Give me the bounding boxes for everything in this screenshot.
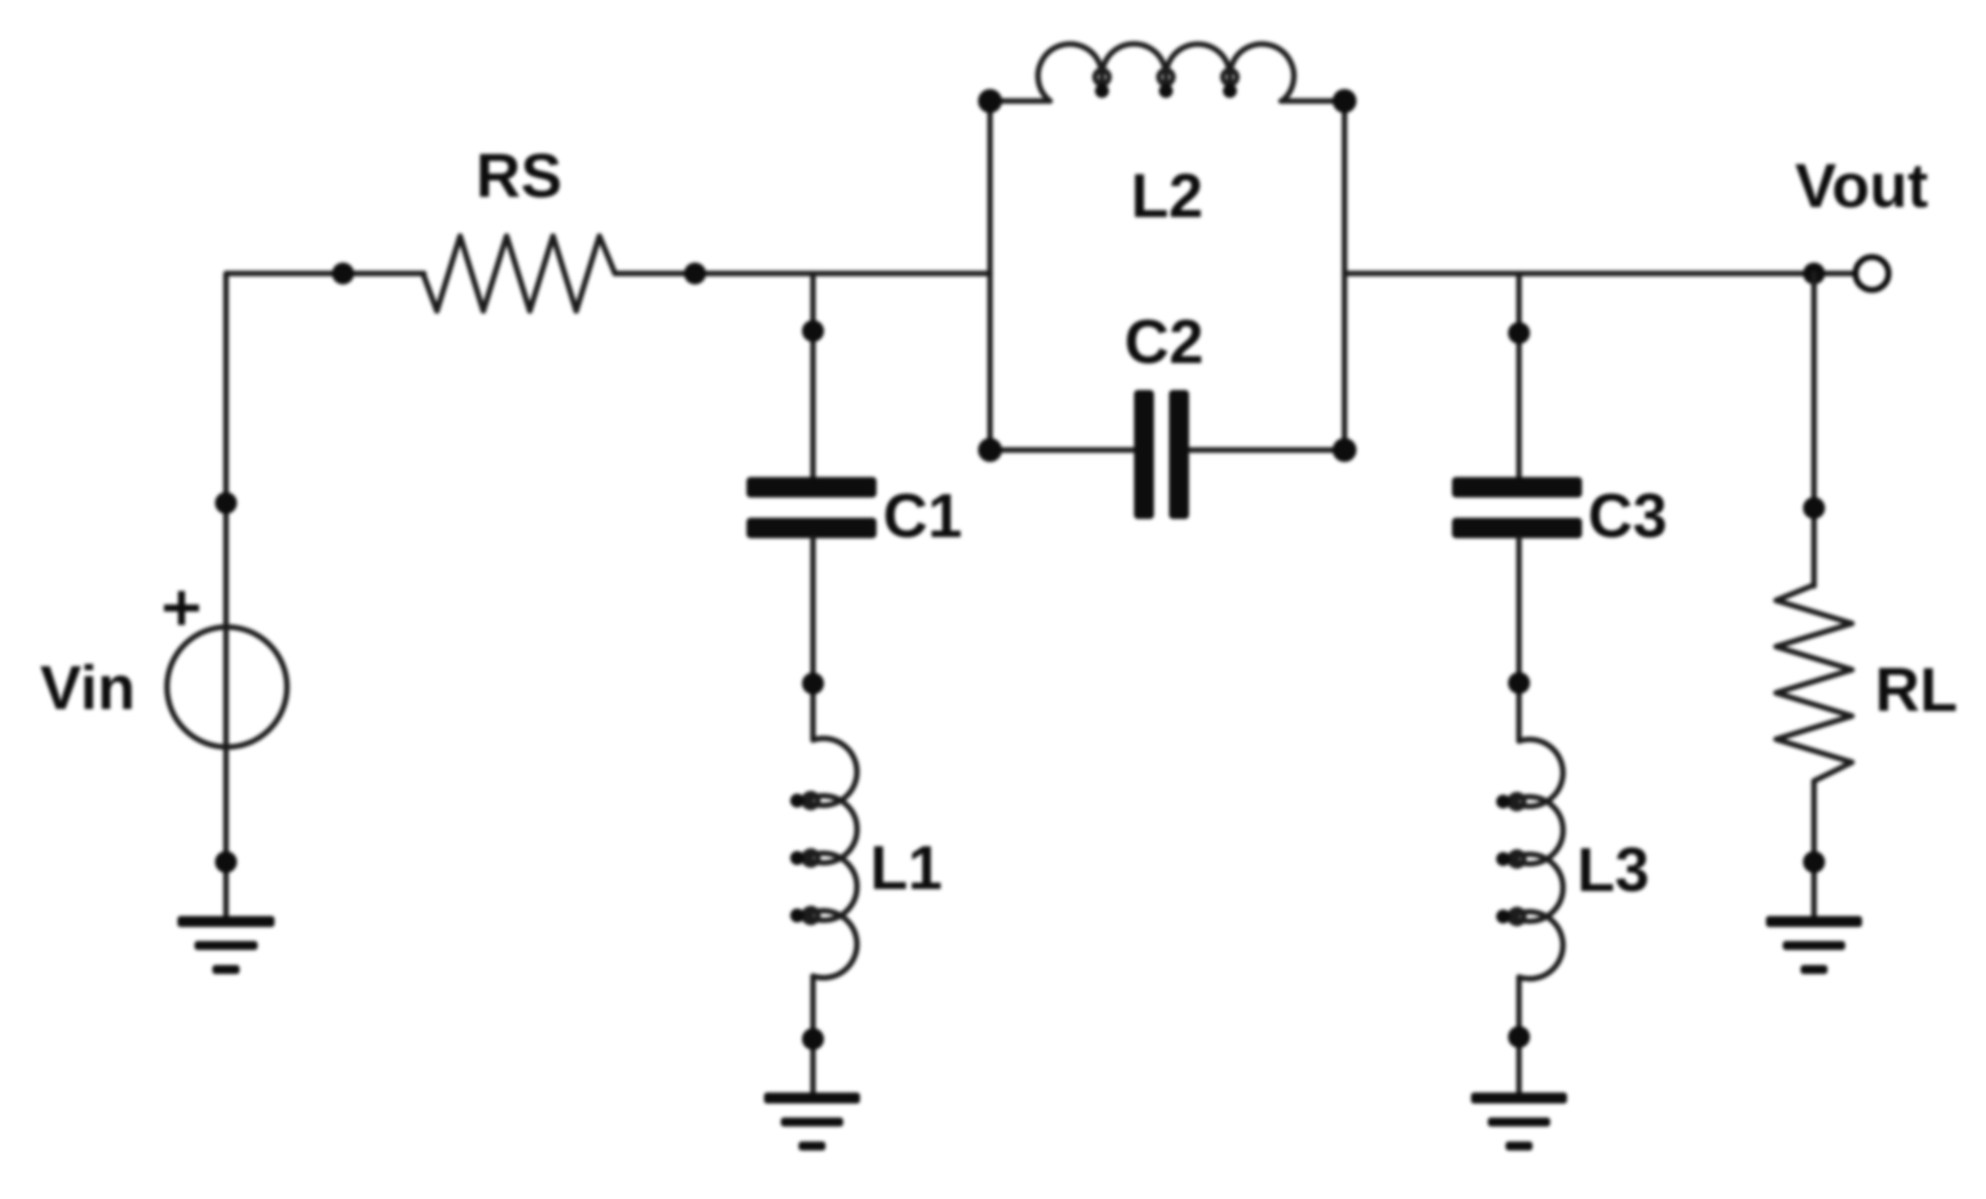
wire: main line down to C3	[1516, 274, 1522, 477]
svg-text:RL: RL	[1875, 656, 1958, 725]
node: dot below RL	[1803, 851, 1825, 873]
wire: box right vertical	[1342, 101, 1348, 450]
wire: box bottom-right segment	[1189, 447, 1345, 453]
node: dot above Vin	[215, 492, 237, 514]
resistor RL	[1776, 585, 1852, 781]
wire: C3 to L3	[1516, 538, 1522, 741]
ground below RL	[1766, 916, 1862, 974]
node: dot below L1	[802, 1028, 824, 1050]
node: box top-left corner	[978, 89, 1002, 113]
node: pin dot right of RS	[684, 263, 706, 285]
wire: box top-left segment	[990, 98, 1050, 104]
node: box top-right corner	[1333, 89, 1357, 113]
svg-text:C3: C3	[1588, 482, 1667, 551]
wire: box bottom-left segment	[990, 447, 1134, 453]
node: source pin dot left of RS	[332, 263, 354, 285]
node: dot below L3	[1508, 1026, 1530, 1048]
svg-text:C2: C2	[1124, 308, 1203, 377]
terminal Vout	[1856, 257, 1889, 290]
wire: block to Vout	[1345, 271, 1857, 277]
wire: RL to ground	[1811, 781, 1817, 917]
node: dot below Vin	[215, 851, 237, 873]
plus sign of Vin	[164, 591, 199, 625]
resistor RS	[423, 236, 615, 311]
capacitor C1	[747, 477, 877, 538]
svg-text:L1: L1	[870, 834, 942, 903]
inductor L2	[1038, 44, 1294, 101]
ground below L3	[1471, 1093, 1567, 1151]
svg-text:Vin: Vin	[40, 654, 135, 723]
voltage source Vin	[167, 627, 287, 747]
ground below L1	[764, 1093, 860, 1151]
wire: main line down to RL	[1811, 274, 1817, 587]
svg-text:Vout: Vout	[1795, 152, 1928, 221]
wire: left rail from ground up through Vin to RS	[226, 274, 424, 917]
wire: RS to L2/C2 block, with C1 tap	[615, 271, 990, 277]
svg-text:RS: RS	[476, 142, 562, 211]
node: pin dot on C1 branch	[802, 320, 824, 342]
svg-text:L2: L2	[1131, 162, 1203, 231]
wire: L1 to ground	[810, 976, 816, 1094]
inductor L1	[790, 738, 857, 977]
node: dot above RL	[1803, 497, 1825, 519]
ground below Vin	[178, 916, 275, 974]
wire: box left vertical	[987, 101, 993, 450]
wire: L3 to ground	[1516, 977, 1522, 1094]
node: box bottom-right corner	[1333, 438, 1357, 462]
wire: C1 to L1	[810, 538, 816, 740]
node: box bottom-left corner	[978, 438, 1002, 462]
capacitor C3	[1452, 477, 1582, 538]
svg-text:C1: C1	[883, 482, 962, 551]
wire: main line down to C1	[810, 274, 816, 478]
node: dot between C3 and L3	[1508, 672, 1530, 694]
capacitor C2	[1134, 390, 1189, 519]
node: dot between C1 and L1	[802, 673, 824, 695]
svg-text:L3: L3	[1577, 836, 1649, 905]
node: pin dot on C3 branch	[1508, 322, 1530, 344]
wire: box top-right segment	[1281, 98, 1345, 104]
inductor L3	[1496, 739, 1563, 978]
node: dot at RL tap	[1803, 263, 1825, 285]
